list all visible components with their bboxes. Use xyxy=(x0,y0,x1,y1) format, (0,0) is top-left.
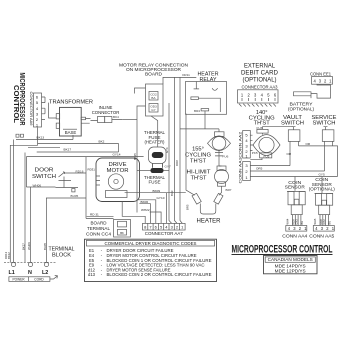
svg-text:GY: GY xyxy=(151,108,155,112)
svg-text:FU5: FU5 xyxy=(264,154,270,158)
coin sensor 2 xyxy=(315,193,333,225)
svg-text:CONN AA1: CONN AA1 xyxy=(238,157,242,183)
svg-text:PK5: PK5 xyxy=(252,151,258,155)
inline connector label xyxy=(92,105,120,115)
vertical wire labels xyxy=(4,147,190,259)
svg-text:OR: OR xyxy=(287,152,292,156)
wire board bottom run xyxy=(86,218,114,220)
transformer T1 xyxy=(49,103,91,136)
svg-text:BR4: BR4 xyxy=(194,109,200,113)
conn AA4 xyxy=(286,226,307,232)
wire N riser xyxy=(30,187,32,262)
fuse FU6 xyxy=(215,150,229,166)
board terminal conn CC4 xyxy=(114,220,131,238)
svg-text:TH'ST: TH'ST xyxy=(190,159,207,165)
wire riser C xyxy=(180,77,182,223)
connector AA6 xyxy=(34,93,46,128)
board terminal conn CC4 label xyxy=(86,220,111,236)
node squares xyxy=(16,134,24,137)
svg-text:BASE: BASE xyxy=(65,130,77,135)
wire AA7 pin4 riser xyxy=(165,193,167,224)
wire L1 riser xyxy=(13,140,15,263)
wire OR11 run xyxy=(163,77,196,84)
svg-text:(OPTIONAL): (OPTIONAL) xyxy=(288,106,315,111)
svg-text:TERMINAL: TERMINAL xyxy=(87,226,110,231)
wire BK17 run xyxy=(28,146,60,148)
svg-text:GY3: GY3 xyxy=(294,219,298,225)
svg-text:GY2: GY2 xyxy=(322,219,326,225)
svg-text:BR7: BR7 xyxy=(226,188,232,192)
svg-text:SWITCH: SWITCH xyxy=(313,121,336,127)
svg-text:DRIVE: DRIVE xyxy=(109,162,127,168)
svg-text:BU05: BU05 xyxy=(43,243,47,250)
diagnostic codes box xyxy=(85,239,217,281)
svg-text:BK15: BK15 xyxy=(133,153,137,160)
heater relay label xyxy=(198,72,219,83)
label MICROPROCESSOR CONTROL (left vertical) xyxy=(12,73,27,126)
wire inline to BK15 xyxy=(122,119,137,121)
door switch xyxy=(46,172,86,219)
conn AA2 xyxy=(243,131,251,159)
svg-text:L1: L1 xyxy=(9,270,15,276)
wire AA1 pin3 run xyxy=(250,141,290,165)
wire door feed riser xyxy=(24,153,26,263)
connector EE1 xyxy=(312,77,333,85)
svg-text:CORD: CORD xyxy=(34,278,44,282)
svg-text:CONN EE1: CONN EE1 xyxy=(310,71,332,76)
wire hi-limit to heater xyxy=(219,186,222,195)
svg-text:EXTERNAL: EXTERNAL xyxy=(244,62,276,69)
svg-text:OR: OR xyxy=(306,142,311,146)
svg-text:FUSE: FUSE xyxy=(149,180,161,185)
svg-text:WH5: WH5 xyxy=(313,218,317,224)
svg-text:BK09: BK09 xyxy=(153,189,161,193)
wire heater relay to 155 thst xyxy=(180,114,219,131)
svg-text:HEATER: HEATER xyxy=(197,217,221,224)
wire RD31 run xyxy=(87,215,114,217)
svg-text:DEBIT CARD: DEBIT CARD xyxy=(241,69,279,76)
wire GY10 run xyxy=(137,200,156,224)
svg-text:BK2: BK2 xyxy=(99,140,105,144)
svg-text:MDE 12PD/YS: MDE 12PD/YS xyxy=(275,269,306,274)
wire WH22 run xyxy=(150,212,161,223)
svg-text:GY14: GY14 xyxy=(113,153,121,157)
svg-text:TH'ST: TH'ST xyxy=(191,176,208,182)
service switch S2 xyxy=(322,127,334,142)
coin sensor 2 (optional) label xyxy=(309,177,336,191)
drive motor xyxy=(96,158,140,202)
svg-text:N: N xyxy=(28,270,32,276)
svg-text:OR8: OR8 xyxy=(175,160,179,166)
service switch label xyxy=(312,115,337,127)
svg-text:BU05: BU05 xyxy=(71,194,79,198)
battery (optional) xyxy=(288,84,331,111)
svg-text:RD31: RD31 xyxy=(88,168,96,172)
wire L2 riser xyxy=(46,198,48,262)
svg-text:WH4: WH4 xyxy=(285,218,289,224)
wire motor fuse right xyxy=(164,170,170,172)
svg-text:d13: d13 xyxy=(88,272,96,277)
svg-text:(OPTIONAL): (OPTIONAL) xyxy=(243,77,277,84)
wire service right pin drop xyxy=(332,141,334,146)
svg-text:SWITCH: SWITCH xyxy=(32,174,56,180)
wire AA1 pin2 run xyxy=(250,141,324,171)
door switch label xyxy=(32,167,56,179)
thermal fuse (heater) xyxy=(149,147,167,167)
terminal block label xyxy=(49,246,76,258)
svg-text:BU: BU xyxy=(300,221,304,225)
coin sensor 1 label xyxy=(285,180,305,190)
svg-text:RD16: RD16 xyxy=(76,169,84,173)
svg-text:L2: L2 xyxy=(42,270,48,276)
wire RD13 riser xyxy=(10,127,37,262)
svg-text:BK: BK xyxy=(120,231,124,235)
svg-text:DOOR: DOOR xyxy=(35,167,54,173)
hi-limit thermostat xyxy=(215,166,229,186)
microprocessor control heading xyxy=(232,243,333,255)
svg-text:COMMERCIAL DRYER DIAGNOSTIC CO: COMMERCIAL DRYER DIAGNOSTIC CODES xyxy=(105,241,197,246)
svg-text:FU6: FU6 xyxy=(223,155,229,159)
wire BK15 riser xyxy=(136,120,138,213)
canadian models box xyxy=(264,256,318,274)
wire 155 to hi-limit xyxy=(219,165,222,167)
wire WH06 stub xyxy=(26,186,55,188)
svg-text:OR11: OR11 xyxy=(182,73,190,77)
wire AA2 pin feeds xyxy=(250,135,253,150)
terminal block xyxy=(4,262,57,276)
conn AA1 xyxy=(243,162,251,181)
svg-text:BU3: BU3 xyxy=(170,190,174,196)
motor relay connection label xyxy=(119,62,188,76)
wire coin sensor 1 feed xyxy=(294,177,296,191)
wire relay diagonal to fuse xyxy=(151,116,158,147)
power cord xyxy=(9,276,58,282)
svg-text:GY5: GY5 xyxy=(319,172,325,176)
wire coin sensor 2 feed xyxy=(321,177,323,194)
svg-text:BLOCK: BLOCK xyxy=(52,253,71,259)
140 cycling thermostat xyxy=(250,133,280,160)
svg-text:CONNECTOR AA7: CONNECTOR AA7 xyxy=(145,231,183,236)
wire riser A xyxy=(169,103,172,223)
coin sensor 1 wire labels xyxy=(285,218,304,224)
svg-text:TERMINAL: TERMINAL xyxy=(49,246,76,252)
wire motor bottom drop xyxy=(122,202,145,224)
wire heater relay left drop xyxy=(186,114,195,196)
motor relay connection box xyxy=(146,84,164,116)
svg-text:BLOCKED COIN 2 OR CONTROL CIRC: BLOCKED COIN 2 OR CONTROL CIRCUIT FAILUR… xyxy=(107,272,212,277)
svg-text:WH09: WH09 xyxy=(27,242,31,250)
wire RD16 run xyxy=(85,173,87,187)
155 cycling thermostat label xyxy=(185,147,211,165)
wire BK2 run xyxy=(38,144,119,152)
svg-text:BOARD: BOARD xyxy=(145,72,163,77)
svg-text:CONNECTOR AA6: CONNECTOR AA6 xyxy=(29,92,33,126)
svg-text:(HEATER): (HEATER) xyxy=(145,139,166,144)
svg-text:BK13: BK13 xyxy=(37,136,45,140)
svg-text:TRANSFORMER: TRANSFORMER xyxy=(49,99,93,105)
svg-text:BOARD: BOARD xyxy=(91,220,108,225)
svg-text:CANADIAN MODELS: CANADIAN MODELS xyxy=(268,257,313,262)
wire GY14 run xyxy=(37,151,119,153)
coin sensor 1 xyxy=(287,191,305,225)
svg-text:SWITCH: SWITCH xyxy=(281,121,304,127)
wire heater fuse drops xyxy=(153,164,163,169)
svg-text:RD 31: RD 31 xyxy=(90,212,99,216)
svg-text:BK17: BK17 xyxy=(64,148,72,152)
wire BK13 run xyxy=(16,139,73,141)
hi-limit thermostat label xyxy=(187,170,212,182)
svg-text:BK17: BK17 xyxy=(21,243,25,250)
thermal fuse (motor) label xyxy=(144,175,166,185)
svg-text:MICROPROCESSOR CONTROL: MICROPROCESSOR CONTROL xyxy=(232,243,333,255)
svg-text:GY7: GY7 xyxy=(165,165,171,169)
svg-text:CONN AA4: CONN AA4 xyxy=(282,233,308,238)
svg-text:CONN CC4: CONN CC4 xyxy=(86,231,111,236)
svg-text:POWER: POWER xyxy=(12,278,25,282)
connector AA7 xyxy=(143,223,186,230)
svg-text:BR5: BR5 xyxy=(186,204,190,210)
svg-text:BK06: BK06 xyxy=(141,200,149,204)
wire relay box to AA6 xyxy=(135,88,146,120)
wire transformer base drop xyxy=(72,135,74,140)
heater element xyxy=(192,193,223,214)
svg-text:CONN AA5: CONN AA5 xyxy=(309,233,335,238)
wire motor fuse left xyxy=(137,170,151,172)
140 cycling thermostat label xyxy=(249,110,275,126)
svg-text:GY6: GY6 xyxy=(165,147,169,153)
svg-text:GY10: GY10 xyxy=(157,196,165,200)
wire BK06 run xyxy=(139,204,150,224)
coin sensor 2 wire labels xyxy=(313,218,332,224)
svg-text:CONNECTOR AA3: CONNECTOR AA3 xyxy=(242,84,279,89)
svg-text:WH22: WH22 xyxy=(141,208,150,212)
svg-text:OR5: OR5 xyxy=(256,166,263,170)
vault switch label xyxy=(281,115,304,127)
svg-text:MOTOR: MOTOR xyxy=(107,168,129,174)
vault switch S1 xyxy=(288,127,300,142)
thermal fuse (heater) label xyxy=(144,130,166,144)
svg-text:RELAY: RELAY xyxy=(200,77,218,83)
wire board edge riser xyxy=(25,157,27,187)
svg-text:CONTROL: CONTROL xyxy=(12,85,21,123)
external debit card label xyxy=(241,62,279,89)
wire lower run xyxy=(26,157,143,173)
thermal fuse (motor) xyxy=(151,168,164,173)
wire 140 thst top stub xyxy=(263,127,294,130)
155 cycling thermostat xyxy=(208,132,231,151)
wire riser B xyxy=(175,77,178,223)
svg-text:BU: BU xyxy=(328,221,332,225)
wire AA1 pin1 run xyxy=(250,141,337,176)
conn AA5 xyxy=(313,226,334,232)
inline connector xyxy=(91,117,123,123)
svg-text:BK12: BK12 xyxy=(7,252,11,259)
horizontal wire labels xyxy=(37,136,325,217)
connector AA3 xyxy=(238,90,279,107)
heater relay K1 xyxy=(186,82,227,115)
svg-text:BK4: BK4 xyxy=(113,115,119,119)
svg-text:CONN AA2: CONN AA2 xyxy=(238,132,242,158)
wire BK09 run xyxy=(125,192,186,194)
